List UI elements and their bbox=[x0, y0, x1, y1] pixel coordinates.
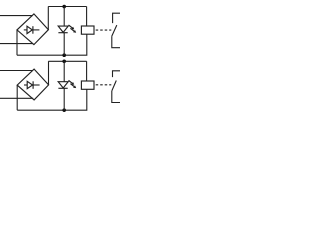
wire LED cathode to rail (ch2) bbox=[63, 88, 65, 110]
LED D4 triangle (ch2) bbox=[58, 82, 68, 88]
wire AC input bottom (ch1) bbox=[0, 43, 33, 45]
diode D1 inside bridge: left lead bbox=[24, 29, 27, 31]
wire AC input bottom (ch2) bbox=[0, 97, 33, 99]
LED arrow 1 (ch1) bbox=[69, 25, 73, 28]
wire LED anode tap (ch1) bbox=[63, 7, 65, 27]
diode D1 triangle bbox=[27, 26, 32, 33]
wire AC input top (ch2) bbox=[0, 70, 33, 72]
node junction LED cathode on DC- rail (ch2) bbox=[62, 108, 66, 112]
LED arrow 2 (ch1) bbox=[70, 28, 74, 31]
diode D1 right lead bbox=[33, 29, 40, 31]
wire contact top terminal (ch1) bbox=[113, 13, 120, 23]
relay coil K1 box bbox=[81, 26, 94, 34]
relay coil K2 box bbox=[81, 81, 94, 89]
wire contact top terminal (ch2) bbox=[113, 71, 121, 77]
node junction LED anode on DC+ rail (ch1) bbox=[62, 5, 66, 9]
wire DC plus from bridge right corner (ch2) bbox=[48, 61, 86, 85]
wire DC minus rail to coil bottom (ch2) bbox=[17, 89, 87, 110]
diode D3 triangle bbox=[27, 81, 32, 88]
diode D3 inside bridge: left lead bbox=[24, 84, 27, 86]
LED D2 cathode bar (ch1) bbox=[58, 32, 67, 34]
wire DC minus drop from bridge left corner (ch2) bbox=[16, 85, 18, 110]
LED arrow 1 (ch2) bbox=[69, 80, 73, 83]
LED D4 cathode bar (ch2) bbox=[58, 87, 67, 89]
wire contact bottom terminal (ch1) bbox=[112, 36, 120, 48]
wire contact bottom terminal (ch2) bbox=[112, 91, 120, 103]
LED arrow 2 (ch2) bbox=[70, 84, 74, 87]
relay contact blade (ch2) bbox=[112, 81, 117, 91]
diode D3 right lead bbox=[33, 84, 40, 86]
wire LED anode tap (ch2) bbox=[63, 61, 65, 81]
relay contact blade (ch1) bbox=[112, 25, 117, 36]
bridge rectifier B1 diamond bbox=[17, 14, 48, 45]
wire DC plus from bridge right corner (ch1) bbox=[48, 7, 86, 30]
mechanical link dashed (ch2) bbox=[96, 84, 112, 86]
wire DC minus rail to coil bottom (ch1) bbox=[17, 34, 87, 55]
wire LED cathode to rail (ch1) bbox=[63, 33, 65, 56]
mechanical link dashed (ch1) bbox=[96, 29, 112, 31]
node junction LED anode on DC+ rail (ch2) bbox=[62, 60, 66, 64]
diode D1 cathode bar bbox=[32, 26, 34, 34]
node junction LED cathode on DC- rail (ch1) bbox=[62, 53, 66, 57]
LED D2 triangle (ch1) bbox=[58, 26, 68, 32]
wire AC input top (ch1) bbox=[0, 15, 33, 17]
diode D3 cathode bar bbox=[32, 81, 34, 89]
bridge rectifier B2 diamond bbox=[17, 69, 48, 100]
wire DC minus drop from bridge left corner (ch1) bbox=[16, 30, 18, 55]
